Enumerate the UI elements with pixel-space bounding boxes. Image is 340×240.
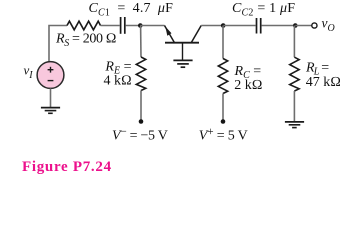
ground at source [41, 108, 60, 114]
resistor RS [67, 21, 101, 30]
wire RE to V- terminal [140, 91, 142, 122]
label RC value [234, 64, 263, 93]
label Figure P7.24 [22, 159, 112, 175]
wire RL down to ground [293, 91, 295, 122]
wire node C to output [295, 25, 311, 27]
wire CC2 to node C [262, 25, 296, 27]
label RS value [55, 31, 116, 48]
wire node A to emitter [140, 25, 164, 27]
svg-text:47 kΩ: 47 kΩ [306, 75, 340, 90]
label CC2 value [232, 1, 295, 18]
label vO [322, 15, 335, 34]
label vI [24, 63, 34, 81]
svg-text:CC2 = 1 μF: CC2 = 1 μF [232, 1, 295, 18]
wire node C down to RL [293, 26, 295, 58]
label RL value [305, 60, 340, 90]
capacitor CC2 [257, 18, 261, 34]
wire top-left from source to RS [49, 26, 67, 62]
svg-text:V+ = 5 V: V+ = 5 V [199, 126, 248, 143]
node A junction dot [138, 23, 143, 28]
node C junction dot [293, 23, 298, 28]
ground at RL [285, 122, 304, 128]
transistor Q1 [165, 26, 202, 61]
node V+ terminal dot [221, 119, 226, 124]
wire node A down to RE [140, 26, 142, 58]
label V- = -5 V [112, 126, 168, 143]
node V- terminal dot [139, 119, 144, 124]
wire RC to V+ terminal [222, 94, 224, 122]
node B junction dot [221, 23, 226, 28]
node output open terminal [312, 23, 317, 28]
label RE value [104, 59, 132, 88]
wire RS to CC1 [101, 25, 120, 27]
label CC1 value [89, 1, 174, 18]
wire collector to node B [201, 25, 223, 27]
wire CC1 to node A [126, 25, 142, 27]
capacitor CC1 [121, 17, 125, 34]
wire node B to CC2 [224, 25, 256, 27]
svg-text:2 kΩ: 2 kΩ [234, 78, 262, 93]
wire node B down to RC [222, 26, 224, 59]
label V+ = 5 V [199, 126, 248, 143]
svg-text:RS = 200 Ω: RS = 200 Ω [55, 31, 116, 48]
ground at transistor base [173, 60, 192, 67]
svg-text:4 kΩ: 4 kΩ [104, 74, 132, 89]
resistor RL [290, 57, 299, 91]
resistor RC [218, 59, 227, 94]
wire source to ground [50, 88, 52, 107]
source vI [37, 62, 64, 89]
resistor RE [136, 57, 145, 91]
svg-text:Figure P7.24: Figure P7.24 [22, 159, 112, 175]
